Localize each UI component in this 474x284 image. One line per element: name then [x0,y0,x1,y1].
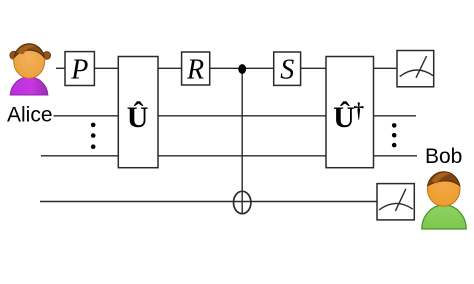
gate S [274,52,301,86]
Alice icon [10,44,51,95]
wire q0 segment P to U [94,67,119,69]
svg-text:Alice: Alice [7,104,53,127]
svg-text:S: S [280,55,294,86]
wire q2 segment U to U-dagger [158,155,327,157]
wire q3 ancilla through CNOT target to meter [40,201,377,203]
ellipsis dots left (more wires) [91,123,96,149]
svg-text:P: P [70,55,88,86]
label Alice [7,104,53,127]
Bob icon [422,172,466,229]
wire q0 segment Alice to P [56,67,66,69]
wire vertical control to target [241,68,243,213]
wire q1 segment Alice to U [54,115,119,117]
wire q0 segment R to S through control [210,67,275,69]
svg-text:†: † [354,98,365,122]
gate U-dagger multi-qubit unitary U2 [326,57,374,168]
gate U multi-qubit unitary U1 [118,57,158,168]
label Bob [425,145,462,168]
wire q1 segment U-dagger to Bob [373,115,416,117]
ellipsis dots right (more wires) [392,123,397,147]
measurement meter M1 on q0 [397,51,434,87]
wire q2 segment U-dagger to Bob [373,155,417,157]
wire q0 segment U-dagger to meter [373,67,398,69]
svg-text:Bob: Bob [425,145,462,168]
wire q0 segment U to R [158,67,183,69]
wire q1 segment U to U-dagger [158,115,327,117]
control dot on q0 [238,64,246,74]
svg-text:Û: Û [333,101,355,134]
wire q2 segment left to U [41,155,119,157]
measurement meter M2 on ancilla [377,184,414,220]
svg-text:R: R [186,55,204,86]
gate P [65,52,94,86]
gate R [182,52,210,86]
svg-text:Û: Û [127,101,149,134]
wire q0 segment S to U-dagger [301,67,327,69]
CNOT target on ancilla [234,191,251,213]
